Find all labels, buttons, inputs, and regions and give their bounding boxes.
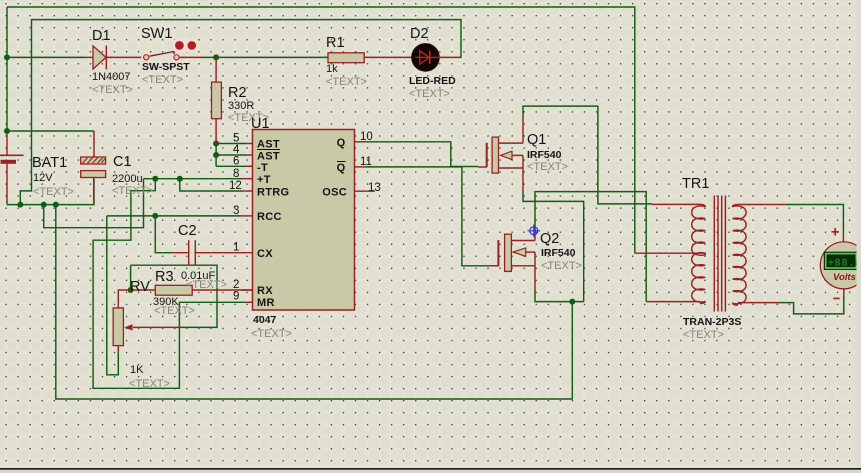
wire bus to ground rail (56, 205, 573, 399)
svg-text:12V: 12V (33, 172, 53, 184)
svg-text:Q2: Q2 (540, 231, 559, 247)
svg-text:AST: AST (257, 139, 280, 151)
svg-text:1: 1 (233, 242, 239, 254)
wire C1 top to battery+ (7, 130, 94, 132)
transistor Q1 IRF540 (478, 118, 523, 192)
voltmeter (820, 228, 861, 298)
svg-text:TRAN-2P3S: TRAN-2P3S (683, 316, 741, 328)
svg-text:1N4007: 1N4007 (92, 71, 131, 83)
wire secondary bottom to meter (780, 296, 844, 314)
wire top +12V rail (7, 7, 635, 253)
wire RCC line (107, 215, 242, 217)
wire Q pin10 to Q1 gate (366, 142, 479, 167)
wire Q2 drain loop (535, 192, 646, 302)
wire left battery+ vertical (6, 7, 8, 133)
svg-text:9: 9 (233, 291, 239, 303)
svg-text:2: 2 (233, 279, 239, 291)
svg-text:C2: C2 (178, 223, 197, 239)
node RCC (152, 213, 158, 219)
resistor R1 1k (328, 53, 364, 63)
node bus 3 (53, 202, 59, 208)
bottom sheet border (0, 468, 861, 470)
node +T a (152, 176, 158, 182)
wire box left to R3 (130, 265, 132, 290)
resistor R2 330R (215, 57, 217, 82)
node pin4 (213, 152, 219, 158)
svg-text:Q: Q (337, 137, 346, 149)
svg-text:<TEXT>: <TEXT> (527, 161, 568, 173)
svg-text:D2: D2 (410, 26, 429, 42)
transistor Q2 IRF540 (490, 232, 535, 291)
node +T b (177, 176, 183, 182)
svg-text:IRF540: IRF540 (541, 247, 576, 259)
wire bus to VSS staircase (44, 179, 144, 228)
wire main +12V horizontal y57 (7, 56, 85, 58)
svg-text:LED-RED: LED-RED (409, 75, 456, 87)
svg-text:SW1: SW1 (141, 26, 172, 42)
wire Q1 source down (523, 192, 584, 302)
svg-text:13: 13 (368, 182, 381, 194)
wire R1 LED cathode up and back (20, 20, 461, 205)
wire box around RV1 (131, 265, 217, 327)
svg-text:RCC: RCC (257, 211, 282, 223)
svg-text:Q: Q (337, 162, 346, 174)
svg-text:8: 8 (233, 168, 239, 180)
svg-text:+T: +T (257, 174, 271, 186)
wire RCC down to pot bottom (107, 216, 119, 375)
svg-text:1K: 1K (130, 364, 144, 376)
svg-text:BAT1: BAT1 (32, 155, 67, 171)
pot RV1 1K (118, 290, 130, 308)
svg-text:Q1: Q1 (527, 132, 546, 148)
svg-text:D1: D1 (92, 28, 111, 44)
svg-text:<TEXT>: <TEXT> (186, 279, 227, 291)
node main/left (4, 54, 10, 60)
node R3 left (128, 287, 134, 293)
wire +T line (144, 178, 242, 180)
svg-text:<TEXT>: <TEXT> (154, 305, 195, 317)
pin 2 (242, 289, 253, 291)
svg-text:OSC: OSC (322, 187, 347, 199)
wire RTRG jog (180, 179, 242, 191)
svg-text:<TEXT>: <TEXT> (112, 185, 153, 197)
wire SW1 to R2/R1 (203, 56, 328, 58)
svg-text:<TEXT>: <TEXT> (251, 328, 292, 340)
right window strip (857, 0, 861, 468)
pin 5 (246, 143, 253, 145)
switch SW1 (173, 39, 198, 52)
svg-text:CX: CX (257, 248, 273, 260)
wire RCC to C2 left (155, 216, 172, 253)
svg-text:U1: U1 (251, 116, 270, 132)
LED D2 (412, 44, 440, 72)
svg-text:6: 6 (233, 156, 239, 168)
svg-text:5: 5 (233, 133, 239, 145)
svg-text:4047: 4047 (253, 314, 277, 326)
pin 3 (242, 215, 253, 217)
svg-text:<TEXT>: <TEXT> (129, 378, 170, 390)
wire pins 5 4 6 tie (216, 144, 246, 167)
wire Q2 source to ground (535, 291, 584, 302)
svg-text:C1: C1 (113, 154, 132, 170)
wire battery- bus y204.6 (7, 179, 94, 205)
node SW1/R2 (213, 54, 219, 60)
svg-text:3: 3 (233, 205, 239, 217)
pin 6 (246, 165, 253, 167)
svg-text:+88.8: +88.8 (828, 258, 861, 270)
svg-text:<TEXT>: <TEXT> (326, 76, 367, 88)
svg-text:<TEXT>: <TEXT> (541, 260, 582, 272)
svg-text:10: 10 (360, 131, 373, 143)
svg-text:4: 4 (233, 144, 240, 156)
svg-text:<TEXT>: <TEXT> (33, 186, 74, 198)
capacitor C2 0.01uF (172, 240, 189, 265)
svg-text:12: 12 (229, 180, 242, 192)
wire secondary top to meter (785, 205, 844, 236)
node bus 1 (17, 202, 23, 208)
battery BAT1 (6, 133, 8, 155)
origin marker Q2 (528, 225, 541, 238)
svg-text:330R: 330R (228, 100, 254, 112)
transformer TR1 (635, 196, 785, 312)
svg-text:SW-SPST: SW-SPST (142, 61, 190, 73)
svg-text:2200u: 2200u (112, 173, 143, 185)
node R2/pin5 (213, 141, 219, 147)
node bus 2 (41, 202, 47, 208)
svg-text:<TEXT>: <TEXT> (92, 84, 133, 96)
svg-text:R1: R1 (326, 35, 345, 51)
wire Q1 drain to primary top (523, 106, 652, 204)
node battery/C1 top (4, 128, 10, 134)
svg-text:R3: R3 (155, 269, 174, 285)
IC U1 4047 (253, 130, 355, 311)
svg-text:<TEXT>: <TEXT> (683, 329, 724, 341)
diode D1 1N4007 (85, 56, 93, 58)
pin 13 OSC stub (355, 190, 376, 192)
resistor R3 390K (131, 289, 156, 291)
node ground rail (569, 299, 575, 305)
svg-text:<TEXT>: <TEXT> (142, 74, 183, 86)
pin MR red (245, 301, 253, 303)
svg-text:1k: 1k (326, 63, 338, 75)
wire Qbar pin11 to Q2 gate (366, 167, 491, 266)
svg-text:RX: RX (257, 285, 273, 297)
svg-text:MR: MR (257, 297, 275, 309)
svg-text:RV: RV (130, 279, 150, 295)
pin 8 (242, 178, 253, 180)
svg-text:AST: AST (257, 150, 280, 162)
pin 12 (242, 190, 253, 192)
svg-text:IRF540: IRF540 (527, 149, 562, 161)
pin 10 (355, 141, 366, 143)
pin 4 (246, 154, 253, 156)
svg-text:Volts: Volts (833, 272, 856, 283)
wire VSS staircase to MR (93, 179, 245, 389)
pin 11 (355, 166, 366, 168)
svg-text:-T: -T (257, 162, 268, 174)
svg-text:<TEXT>: <TEXT> (409, 88, 450, 100)
svg-text:11: 11 (360, 156, 372, 168)
svg-text:R2: R2 (228, 85, 247, 101)
svg-text:RTRG: RTRG (257, 186, 289, 198)
capacitor C1 2200u (81, 157, 106, 203)
svg-text:TR1: TR1 (682, 176, 709, 192)
